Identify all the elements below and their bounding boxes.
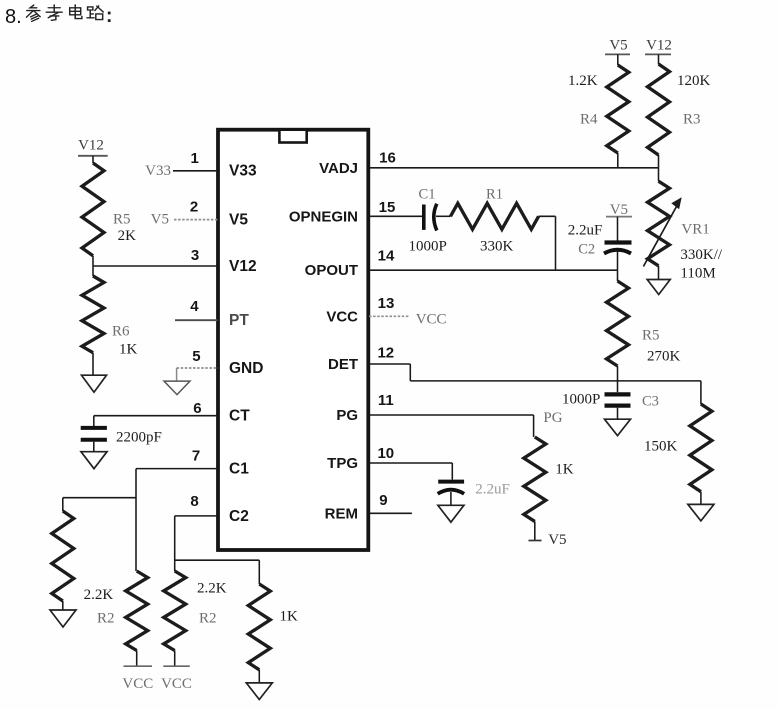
svg-text:150K: 150K <box>644 439 678 455</box>
label R4 <box>580 112 598 128</box>
svg-text:1.2K: 1.2K <box>568 73 598 89</box>
svg-text:15: 15 <box>379 199 396 216</box>
ground under R6 <box>82 375 107 392</box>
title char 考 <box>46 5 62 20</box>
wire down to 1K <box>533 415 535 437</box>
pin number 14 <box>378 248 395 265</box>
resistor 1K (PG) <box>524 437 546 521</box>
title colon <box>108 12 111 22</box>
wire <box>617 381 619 392</box>
svg-text:1000P: 1000P <box>562 392 600 408</box>
wire down to OPOUT <box>555 216 557 270</box>
label 1000P <box>562 392 600 408</box>
svg-text:C3: C3 <box>642 394 659 410</box>
label 1.2K <box>568 73 598 89</box>
V12 supply label <box>646 38 672 54</box>
IC pin name V33 <box>229 163 257 180</box>
svg-text:V33: V33 <box>145 163 171 179</box>
pin 8 branch to 1K <box>175 559 260 561</box>
pin 8 wire <box>175 515 218 517</box>
wire <box>62 601 64 610</box>
label 2.2K <box>197 581 227 597</box>
svg-text:C2: C2 <box>578 242 595 258</box>
resistor R1 330K <box>451 203 539 229</box>
svg-text:5: 5 <box>192 348 200 365</box>
svg-text:1K: 1K <box>119 342 138 358</box>
svg-text:3: 3 <box>191 247 199 264</box>
resistor R2 (second) <box>164 571 186 651</box>
svg-text:GND: GND <box>229 360 263 377</box>
pin 1 wire <box>173 170 218 172</box>
pin 2 wire (gray) <box>174 219 218 221</box>
svg-text:PG: PG <box>543 410 562 426</box>
ground under VR1 <box>647 280 670 295</box>
pin number 10 <box>377 445 394 462</box>
pin number 1 <box>191 150 199 167</box>
pin number 12 <box>377 345 394 362</box>
wire <box>617 366 619 381</box>
pin number 13 <box>378 295 395 312</box>
resistor R6 1K <box>82 276 104 353</box>
pin number 16 <box>379 150 396 167</box>
label VCC <box>161 676 192 692</box>
wire <box>617 270 619 281</box>
capacitor C2 curved plate <box>604 250 631 254</box>
pin 12 DET wire <box>369 363 410 365</box>
IC pin name OPNEGIN <box>289 208 358 225</box>
resistor R5 2K <box>82 163 104 256</box>
capacitor 2.2uF plate <box>438 480 464 484</box>
pin 7 wire <box>136 468 218 470</box>
capacitor 2.2uF curved plate <box>438 490 464 494</box>
pin 13 VCC wire (gray) <box>369 315 410 317</box>
wire <box>92 353 94 376</box>
label 330K <box>480 239 514 255</box>
svg-text:DET: DET <box>328 356 358 373</box>
label C2 <box>578 242 595 258</box>
title char 参 <box>26 5 40 21</box>
svg-text:330K: 330K <box>480 239 514 255</box>
label V33 <box>145 163 171 179</box>
wire <box>450 492 452 505</box>
wire <box>658 54 660 64</box>
wire <box>539 215 556 217</box>
label 2.2K <box>84 587 114 603</box>
VCC terminal bar <box>163 665 190 667</box>
label VCC <box>416 312 447 328</box>
svg-text:120K: 120K <box>677 73 711 89</box>
wire <box>93 442 95 452</box>
label 2.2uF <box>475 482 510 498</box>
svg-text:2.2K: 2.2K <box>84 587 114 603</box>
svg-text:V5: V5 <box>548 532 566 548</box>
svg-text:CT: CT <box>229 408 250 425</box>
wire <box>92 156 94 163</box>
capacitor C1 curved plate <box>434 204 437 231</box>
svg-text:R5: R5 <box>113 212 131 228</box>
resistor 1K (bottom) <box>248 584 270 670</box>
label 1K <box>280 609 299 625</box>
wire <box>617 217 619 241</box>
svg-text:VCC: VCC <box>416 312 447 328</box>
svg-text:13: 13 <box>378 295 395 312</box>
svg-text:12: 12 <box>377 345 394 362</box>
V5 terminal tick <box>529 540 542 542</box>
label 2.2uF <box>568 223 603 239</box>
wire <box>258 670 260 683</box>
svg-text:2.2uF: 2.2uF <box>475 482 510 498</box>
svg-text:VADJ: VADJ <box>319 160 358 177</box>
IC pin name GND <box>229 360 263 377</box>
capacitor 2200pF plate2 <box>81 438 107 442</box>
label 110M <box>680 266 715 282</box>
svg-text:VCC: VCC <box>326 308 358 325</box>
svg-text:PT: PT <box>229 312 249 329</box>
svg-text:VR1: VR1 <box>681 222 709 238</box>
pin 7 vertical <box>135 469 137 571</box>
svg-text:270K: 270K <box>647 349 681 365</box>
wire <box>136 651 138 666</box>
svg-text:R4: R4 <box>580 112 598 128</box>
svg-text:R2: R2 <box>97 611 115 627</box>
wire <box>658 266 660 280</box>
label R3 <box>683 112 701 128</box>
ground at pin 5 <box>164 381 190 395</box>
pin number 15 <box>379 199 396 216</box>
ground under 2.2K <box>50 610 76 627</box>
svg-text:16: 16 <box>379 150 396 167</box>
label 150K <box>644 439 678 455</box>
IC pin name VADJ <box>319 160 358 177</box>
svg-text:1K: 1K <box>280 609 299 625</box>
pin 5 ground lead <box>176 368 178 381</box>
wire <box>700 492 702 505</box>
pin number 6 <box>193 400 201 417</box>
wire down to 150K <box>700 381 702 404</box>
wire <box>617 54 619 65</box>
svg-text:R1: R1 <box>486 187 503 203</box>
V5 supply bar <box>606 216 632 218</box>
label 120K <box>677 73 711 89</box>
pin number 9 <box>379 492 387 509</box>
label R6 <box>112 324 130 340</box>
label C1 <box>419 187 436 203</box>
svg-text:330K//: 330K// <box>680 247 723 263</box>
V12 supply bar <box>645 53 671 55</box>
svg-text:7: 7 <box>192 448 200 465</box>
label V5 <box>151 212 169 228</box>
svg-text:9: 9 <box>379 492 387 509</box>
pin 11 PG wire <box>369 414 534 416</box>
svg-text:2K: 2K <box>118 228 137 244</box>
potentiometer VR1 <box>648 181 670 266</box>
pin number 2 <box>190 199 198 216</box>
svg-text:V5: V5 <box>610 202 628 218</box>
svg-text:6: 6 <box>193 400 201 417</box>
wire down to 2.2K <box>62 498 64 511</box>
pin 14 OPOUT wire <box>369 269 618 271</box>
DET corner down <box>409 364 411 381</box>
svg-text:2200pF: 2200pF <box>116 430 162 446</box>
svg-text:R5: R5 <box>642 328 660 344</box>
label V5 <box>548 532 566 548</box>
pin number 7 <box>192 448 200 465</box>
IC pin name REM <box>325 505 358 522</box>
VR1 arrow <box>643 197 681 266</box>
wire R5-R6 <box>92 256 94 276</box>
label 1K <box>555 462 574 478</box>
ground under 2200pF <box>81 452 107 469</box>
capacitor C2 plate <box>605 240 632 244</box>
svg-text:R6: R6 <box>112 324 130 340</box>
resistor R4 1.2K <box>607 65 629 153</box>
svg-text:8: 8 <box>190 493 198 510</box>
pin 4 wire <box>175 319 218 321</box>
svg-text:1K: 1K <box>555 462 574 478</box>
V12 supply bar <box>78 155 108 157</box>
DET horizontal run <box>410 380 701 382</box>
resistor R2 (first) <box>126 571 148 651</box>
IC pin name TPG <box>327 455 358 472</box>
pin number 4 <box>190 298 199 315</box>
svg-text:C1: C1 <box>419 187 436 203</box>
svg-text:R2: R2 <box>199 611 217 627</box>
title char 路 <box>87 6 103 20</box>
pin 3 wire <box>93 265 218 267</box>
resistor 2.2K (left) <box>52 511 74 601</box>
svg-text:OPNEGIN: OPNEGIN <box>289 208 358 225</box>
IC notch <box>279 130 306 143</box>
label 2200pF <box>116 430 162 446</box>
svg-text:V5: V5 <box>609 38 627 54</box>
svg-text:2: 2 <box>190 199 198 216</box>
label 1000P <box>409 239 447 255</box>
wire <box>617 252 619 271</box>
IC pin name C1 <box>229 461 249 478</box>
svg-text:V12: V12 <box>78 138 104 154</box>
wire <box>617 153 619 168</box>
IC pin name PT <box>229 312 249 329</box>
pin 8 vertical <box>174 516 176 571</box>
ground under 1K <box>246 683 272 700</box>
wire down to cap <box>451 463 453 480</box>
capacitor 2200pF plate1 <box>81 426 107 430</box>
pin number 8 <box>190 493 198 510</box>
ground under 150K <box>688 504 714 521</box>
ground under C3 <box>605 419 631 435</box>
wire <box>174 651 176 666</box>
svg-text:V5: V5 <box>229 212 248 229</box>
wire <box>436 215 451 217</box>
resistor 150K <box>690 404 712 492</box>
wire <box>93 416 95 426</box>
VCC terminal bar <box>124 665 153 667</box>
IC pin name C2 <box>229 508 249 525</box>
svg-text:14: 14 <box>378 248 395 265</box>
label VR1 <box>681 222 709 238</box>
pin 7 branch to 2.2K <box>63 497 136 499</box>
label R1 <box>486 187 503 203</box>
pin 10 TPG wire <box>369 462 452 464</box>
pin 6 wire <box>94 415 218 417</box>
svg-text:C2: C2 <box>229 508 249 525</box>
svg-text:C1: C1 <box>229 461 249 478</box>
pin number 5 <box>192 348 200 365</box>
IC pin name VCC <box>326 308 358 325</box>
title text 8. <box>5 6 22 28</box>
pin 9 REM wire <box>369 512 412 514</box>
label R5 <box>642 328 660 344</box>
V5 supply label <box>609 38 627 54</box>
svg-text:OPOUT: OPOUT <box>305 262 358 279</box>
wire <box>658 155 660 168</box>
V5 supply label <box>610 202 628 218</box>
svg-text:R3: R3 <box>683 112 701 128</box>
svg-text:11: 11 <box>378 392 394 409</box>
svg-text:V12: V12 <box>229 258 257 275</box>
IC U1 body <box>218 130 368 550</box>
svg-text:10: 10 <box>377 445 394 462</box>
svg-text:V33: V33 <box>229 163 257 180</box>
svg-text:4: 4 <box>190 298 199 315</box>
pin number 11 <box>378 392 394 409</box>
resistor R3 120K <box>648 64 670 155</box>
capacitor C1 plate <box>422 205 426 230</box>
label C3 <box>642 394 659 410</box>
ground under 2.2uF <box>438 505 464 522</box>
wire <box>658 168 660 181</box>
svg-text:V5: V5 <box>151 212 169 228</box>
svg-text:110M: 110M <box>680 266 715 282</box>
svg-text:VCC: VCC <box>122 676 153 692</box>
label 2K <box>118 228 137 244</box>
label 330K// <box>680 247 723 263</box>
IC pin name V12 <box>229 258 257 275</box>
wire down to 1K <box>258 560 260 584</box>
V5 supply bar <box>605 53 630 55</box>
IC pin name V5 <box>229 212 248 229</box>
IC pin name CT <box>229 408 250 425</box>
label 270K <box>647 349 681 365</box>
pin 16 VADJ wire <box>369 167 659 169</box>
label 1K <box>119 342 138 358</box>
svg-text:1: 1 <box>191 150 199 167</box>
V12 supply label <box>78 138 104 154</box>
pin 5 wire (gray) <box>177 367 218 369</box>
title char 电 <box>70 5 82 19</box>
svg-text:TPG: TPG <box>327 455 358 472</box>
capacitor C3 plate1 <box>605 392 631 396</box>
IC pin name OPOUT <box>305 262 358 279</box>
label VCC <box>122 676 153 692</box>
resistor R5 270K <box>607 281 629 366</box>
capacitor C3 plate2 <box>605 404 631 408</box>
pin number 3 <box>191 247 199 264</box>
wire <box>617 408 619 420</box>
svg-text:REM: REM <box>325 505 358 522</box>
svg-text:2.2K: 2.2K <box>197 581 227 597</box>
svg-text:V12: V12 <box>646 38 672 54</box>
svg-text:VCC: VCC <box>161 676 192 692</box>
IC pin name PG <box>336 407 358 424</box>
label PG <box>543 410 562 426</box>
label R5 <box>113 212 131 228</box>
wire <box>534 521 536 540</box>
svg-text:8.: 8. <box>5 6 22 28</box>
label R2 <box>97 611 115 627</box>
label R2 <box>199 611 217 627</box>
svg-text:1000P: 1000P <box>409 239 447 255</box>
IC pin name DET <box>328 356 358 373</box>
pin 15 wire <box>369 215 423 217</box>
svg-text:PG: PG <box>336 407 358 424</box>
svg-text:2.2uF: 2.2uF <box>568 223 603 239</box>
